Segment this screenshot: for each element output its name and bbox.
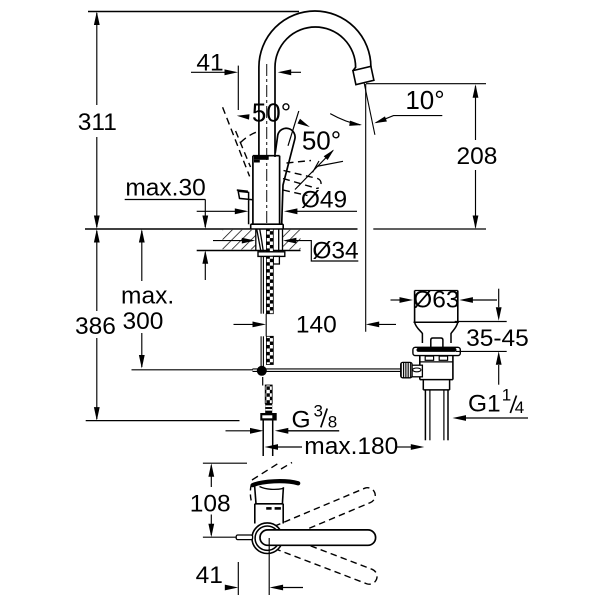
svg-text:4: 4: [515, 398, 524, 417]
svg-text:50°: 50°: [252, 98, 291, 128]
svg-text:Ø34: Ø34: [312, 237, 358, 264]
svg-text:Ø49: Ø49: [301, 187, 347, 214]
svg-text:max.30: max.30: [125, 175, 205, 202]
svg-text:386: 386: [75, 313, 116, 340]
svg-text:max.: max.: [121, 283, 174, 310]
svg-text:3: 3: [314, 401, 323, 420]
svg-text:1: 1: [502, 386, 511, 405]
svg-text:50°: 50°: [302, 126, 341, 156]
svg-text:300: 300: [123, 308, 164, 335]
svg-text:140: 140: [296, 312, 337, 339]
svg-text:35-45: 35-45: [466, 325, 529, 352]
svg-text:311: 311: [78, 109, 117, 136]
svg-text:8: 8: [328, 412, 337, 431]
svg-text:max.180: max.180: [304, 433, 398, 460]
svg-text:G1: G1: [468, 390, 501, 417]
svg-text:208: 208: [457, 143, 498, 170]
svg-text:108: 108: [190, 491, 231, 518]
svg-text:41: 41: [196, 562, 223, 589]
svg-text:G: G: [292, 407, 311, 434]
svg-text:Ø63: Ø63: [413, 286, 459, 313]
svg-text:10°: 10°: [405, 85, 444, 115]
